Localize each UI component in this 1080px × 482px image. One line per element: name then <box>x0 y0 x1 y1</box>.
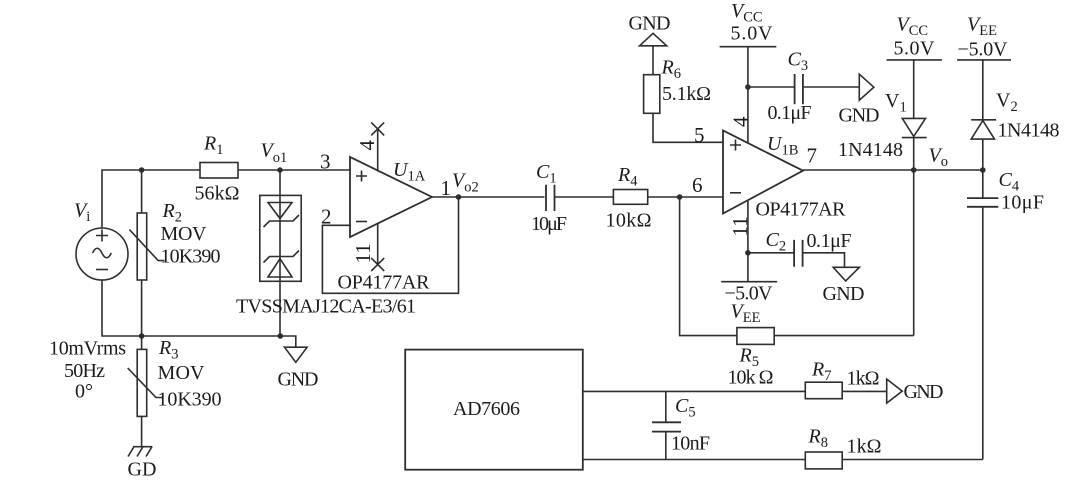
pin 11 stub with X (U1A) <box>371 223 384 271</box>
svg-text:50Hz: 50Hz <box>64 360 105 382</box>
label Vo1 <box>261 140 288 167</box>
capacitor C4 <box>967 198 998 207</box>
pin number 4 (U1A) <box>355 140 379 151</box>
wire C5 bottom stub <box>665 432 667 460</box>
pin 4 stub with X (U1A) <box>371 122 384 170</box>
label U1B <box>767 133 798 159</box>
node TVS bottom junction <box>278 333 284 339</box>
label R5 <box>739 345 759 371</box>
label 0.1uF (C2) <box>807 230 852 252</box>
label 10uF (C4) <box>1001 192 1044 214</box>
svg-text:1kΩ: 1kΩ <box>847 436 882 458</box>
capacitor C2 <box>794 240 803 267</box>
ground GND arrow up (R6) <box>640 33 667 46</box>
label 1k ohm (R8) <box>847 436 882 458</box>
svg-text:5.1kΩ: 5.1kΩ <box>662 83 711 105</box>
wire R2 top stub <box>141 170 143 213</box>
svg-text:10nF: 10nF <box>671 433 710 455</box>
op-amp U1A <box>350 157 432 237</box>
pin number 4 (U1B) <box>729 116 753 127</box>
svg-text:−5.0V: −5.0V <box>958 39 1009 61</box>
label 5.0V (U1B) <box>731 23 774 45</box>
svg-text:AD7606: AD7606 <box>453 398 520 420</box>
resistor R8 <box>805 452 842 469</box>
svg-text:MOV: MOV <box>158 362 206 384</box>
label Vo2 <box>452 170 479 196</box>
supply VCC bar (V1) <box>887 59 942 61</box>
svg-text:10μF: 10μF <box>531 213 567 235</box>
label VEE (V2) <box>967 14 997 40</box>
pin number 5 <box>694 123 705 147</box>
svg-text:1N4148: 1N4148 <box>838 139 903 161</box>
svg-text:10μF: 10μF <box>1001 192 1044 214</box>
diode V1 1N4148 <box>902 118 927 137</box>
label R4 <box>617 164 638 190</box>
svg-text:GND: GND <box>904 381 944 403</box>
label 50Hz <box>64 360 105 382</box>
label V1 <box>885 90 907 116</box>
label C3 <box>788 49 809 75</box>
wire R2 bottom stub <box>141 280 143 336</box>
pin number 11 (U1B) <box>728 216 752 236</box>
label TVSSMAJ12CA-E3/61 <box>236 296 416 318</box>
capacitor C3 <box>795 74 803 104</box>
wire Vo down to R5 <box>913 170 915 336</box>
label GND (above R6) <box>629 13 671 35</box>
node Vo <box>911 167 917 173</box>
wire Vi top to R1 <box>102 170 200 228</box>
svg-text:56kΩ: 56kΩ <box>195 183 240 205</box>
wire GND to R6 <box>652 46 654 75</box>
resistor R6 <box>644 75 660 114</box>
supply VCC bar (U1B) <box>720 46 777 48</box>
wire C5 top stub <box>665 391 667 422</box>
wire U1B output rail Vo <box>803 169 983 171</box>
label 10K390 (R3) <box>158 389 222 411</box>
svg-text:5.0V: 5.0V <box>731 23 774 45</box>
resistor R2 (MOV varistor) <box>129 213 164 280</box>
label 0.1uF (C3) <box>768 102 812 124</box>
label 10k ohm (R4) <box>606 210 652 232</box>
svg-text:6: 6 <box>692 173 703 197</box>
resistor R1 <box>200 163 238 179</box>
wire C3 left <box>748 86 795 88</box>
resistor R7 <box>805 382 842 399</box>
svg-text:7: 7 <box>807 144 818 168</box>
label GND (C3) <box>839 105 880 127</box>
wire TVS vertical <box>279 170 281 336</box>
label 0 degree <box>75 381 93 403</box>
label 5.1k ohm (R6) <box>662 83 711 105</box>
svg-text:GND: GND <box>839 105 880 127</box>
label VCC (U1B) <box>731 0 763 26</box>
resistor R3 (MOV varistor) <box>128 349 163 416</box>
wire AD7606 bottom output to R8 <box>583 459 806 461</box>
node pin6 junction <box>677 194 683 200</box>
svg-text:OP4177AR: OP4177AR <box>756 199 847 221</box>
node V2 C4 junction <box>980 167 986 173</box>
wire VCC to V1 <box>913 60 915 119</box>
label U1A <box>393 159 426 185</box>
label VCC (V1) <box>897 14 929 40</box>
label GND (C2) <box>823 283 865 305</box>
resistor R5 <box>737 328 774 345</box>
label 1N4148 (V2) <box>998 120 1060 142</box>
label R3 <box>158 337 178 363</box>
wire U1B pin 11 <box>747 201 749 282</box>
label R7 <box>811 359 831 385</box>
IC AD7606 <box>405 350 583 470</box>
wire VEE to V2 <box>982 60 984 120</box>
capacitor C5 <box>652 422 681 431</box>
wire R1 to U1A pin 3 <box>238 169 350 171</box>
wire U1B pin 4 <box>747 47 749 144</box>
wire R8 to C4 riser <box>842 459 983 461</box>
pin number 11 (U1A) <box>351 243 375 263</box>
label V2 <box>996 90 1018 116</box>
node R2 top junction <box>139 167 145 173</box>
resistor R4 <box>613 190 647 205</box>
label VEE (U1B) <box>731 301 761 327</box>
svg-text:GND: GND <box>629 13 671 35</box>
wire U1A output to C1 <box>432 196 545 198</box>
pin number 6 <box>692 173 703 197</box>
ground GD (earth) <box>128 447 152 457</box>
label 10k ohm (R5) <box>728 367 774 389</box>
wire C1 to R4 <box>555 196 613 198</box>
wire V1 to rail <box>913 138 915 170</box>
svg-text:4: 4 <box>729 116 753 127</box>
svg-text:10mVrms: 10mVrms <box>49 338 126 360</box>
TVS diode D1 TVSSMAJ12CA-E3/61 <box>260 195 301 281</box>
svg-text:10K390: 10K390 <box>161 246 221 268</box>
label GND (below TVS) <box>278 369 319 391</box>
ground GND (below TVS) <box>285 347 308 362</box>
label MOV (R2) <box>161 223 208 245</box>
node C3 tap <box>745 84 751 90</box>
svg-text:10k Ω: 10k Ω <box>728 367 774 389</box>
wire AD7606 top output to R7 <box>583 390 806 392</box>
label MOV (R3) <box>158 362 206 384</box>
label -5.0V (U1B) <box>725 283 774 305</box>
svg-text:3: 3 <box>320 150 331 174</box>
wire R4 to U1B pin 6 <box>648 196 723 198</box>
wire R6 to U1B pin 5 <box>653 113 723 142</box>
node C2 tap <box>745 250 751 256</box>
ground GND arrow down (C2) <box>833 267 859 281</box>
svg-text:5: 5 <box>694 123 705 147</box>
wire R3 bottom stub <box>141 416 143 446</box>
label GND (R7) <box>904 381 944 403</box>
svg-text:11: 11 <box>728 216 752 236</box>
label R2 <box>162 200 182 226</box>
svg-text:TVSSMAJ12CA-E3/61: TVSSMAJ12CA-E3/61 <box>236 296 416 318</box>
ground GND arrow right (C3) <box>859 74 874 100</box>
svg-text:MOV: MOV <box>161 223 208 245</box>
capacitor C1 <box>546 185 555 211</box>
label -5.0V (V2) <box>958 39 1009 61</box>
svg-text:GND: GND <box>823 283 865 305</box>
label R1 <box>203 133 223 159</box>
label C1 <box>536 161 557 187</box>
label 10nF (C5) <box>671 433 710 455</box>
pin number 2 <box>321 205 332 229</box>
diode V2 1N4148 <box>971 120 996 139</box>
label 10uF (C1) <box>531 213 567 235</box>
label R6 <box>661 57 681 83</box>
op-amp U1B <box>723 131 803 214</box>
svg-text:0°: 0° <box>75 381 93 403</box>
label 10K390 (R2) <box>161 246 221 268</box>
svg-text:10kΩ: 10kΩ <box>606 210 652 232</box>
wire Vi bottom to lower rail <box>102 280 280 336</box>
label 5.0V (V1) <box>894 38 936 60</box>
svg-text:GD: GD <box>128 459 157 481</box>
svg-text:10K390: 10K390 <box>158 389 222 411</box>
svg-text:1N4148: 1N4148 <box>998 120 1060 142</box>
label OP4177AR (U1B) <box>756 199 847 221</box>
label C2 <box>766 229 787 255</box>
svg-text:1kΩ: 1kΩ <box>847 368 880 390</box>
node Vo1 <box>277 167 283 173</box>
node R3 top junction <box>139 333 145 339</box>
wire pin6 down to R5 <box>680 197 737 336</box>
supply VEE bar (V2) <box>957 59 1011 61</box>
svg-text:5.0V: 5.0V <box>894 38 936 60</box>
label OP4177AR (U1A) <box>338 272 431 294</box>
node Vo2 <box>456 194 462 200</box>
ground GND arrow right (R7) <box>887 379 903 403</box>
svg-text:GND: GND <box>278 369 319 391</box>
wire V2 to C4 <box>982 139 984 198</box>
wire R7 to GND <box>842 390 887 392</box>
pin number 7 <box>807 144 818 168</box>
wire C4 down to R8 rail <box>982 207 984 460</box>
svg-text:OP4177AR: OP4177AR <box>338 272 431 294</box>
label 1k ohm (R7) <box>847 368 880 390</box>
pin number 1 <box>441 176 452 200</box>
label R8 <box>808 426 828 452</box>
label C5 <box>675 395 696 421</box>
label C4 <box>999 169 1020 195</box>
label 1N4148 (V1) <box>838 139 903 161</box>
wire C2 left <box>748 252 794 254</box>
svg-text:0.1μF: 0.1μF <box>807 230 852 252</box>
label Vi <box>74 200 90 226</box>
voltage source Vi <box>76 228 128 280</box>
label Vo <box>929 145 948 171</box>
pin number 3 <box>320 150 331 174</box>
svg-text:0.1μF: 0.1μF <box>768 102 812 124</box>
wire U1A feedback pin2 loop <box>322 197 458 293</box>
label GD <box>128 459 157 481</box>
wire TVS bottom to GND <box>280 336 296 347</box>
label 10mVrms <box>49 338 126 360</box>
svg-text:11: 11 <box>351 243 375 263</box>
label 56k ohm (R1) <box>195 183 240 205</box>
label AD7606 <box>453 398 520 420</box>
wire R5 to Vo riser <box>774 335 914 337</box>
wire C3 to GND <box>803 86 859 88</box>
svg-text:4: 4 <box>355 140 379 151</box>
wire C2 to GND <box>803 253 845 267</box>
svg-text:1: 1 <box>441 176 452 200</box>
supply -5.0V bar (U1B) <box>721 281 777 283</box>
wire R3 top stub <box>141 336 143 349</box>
